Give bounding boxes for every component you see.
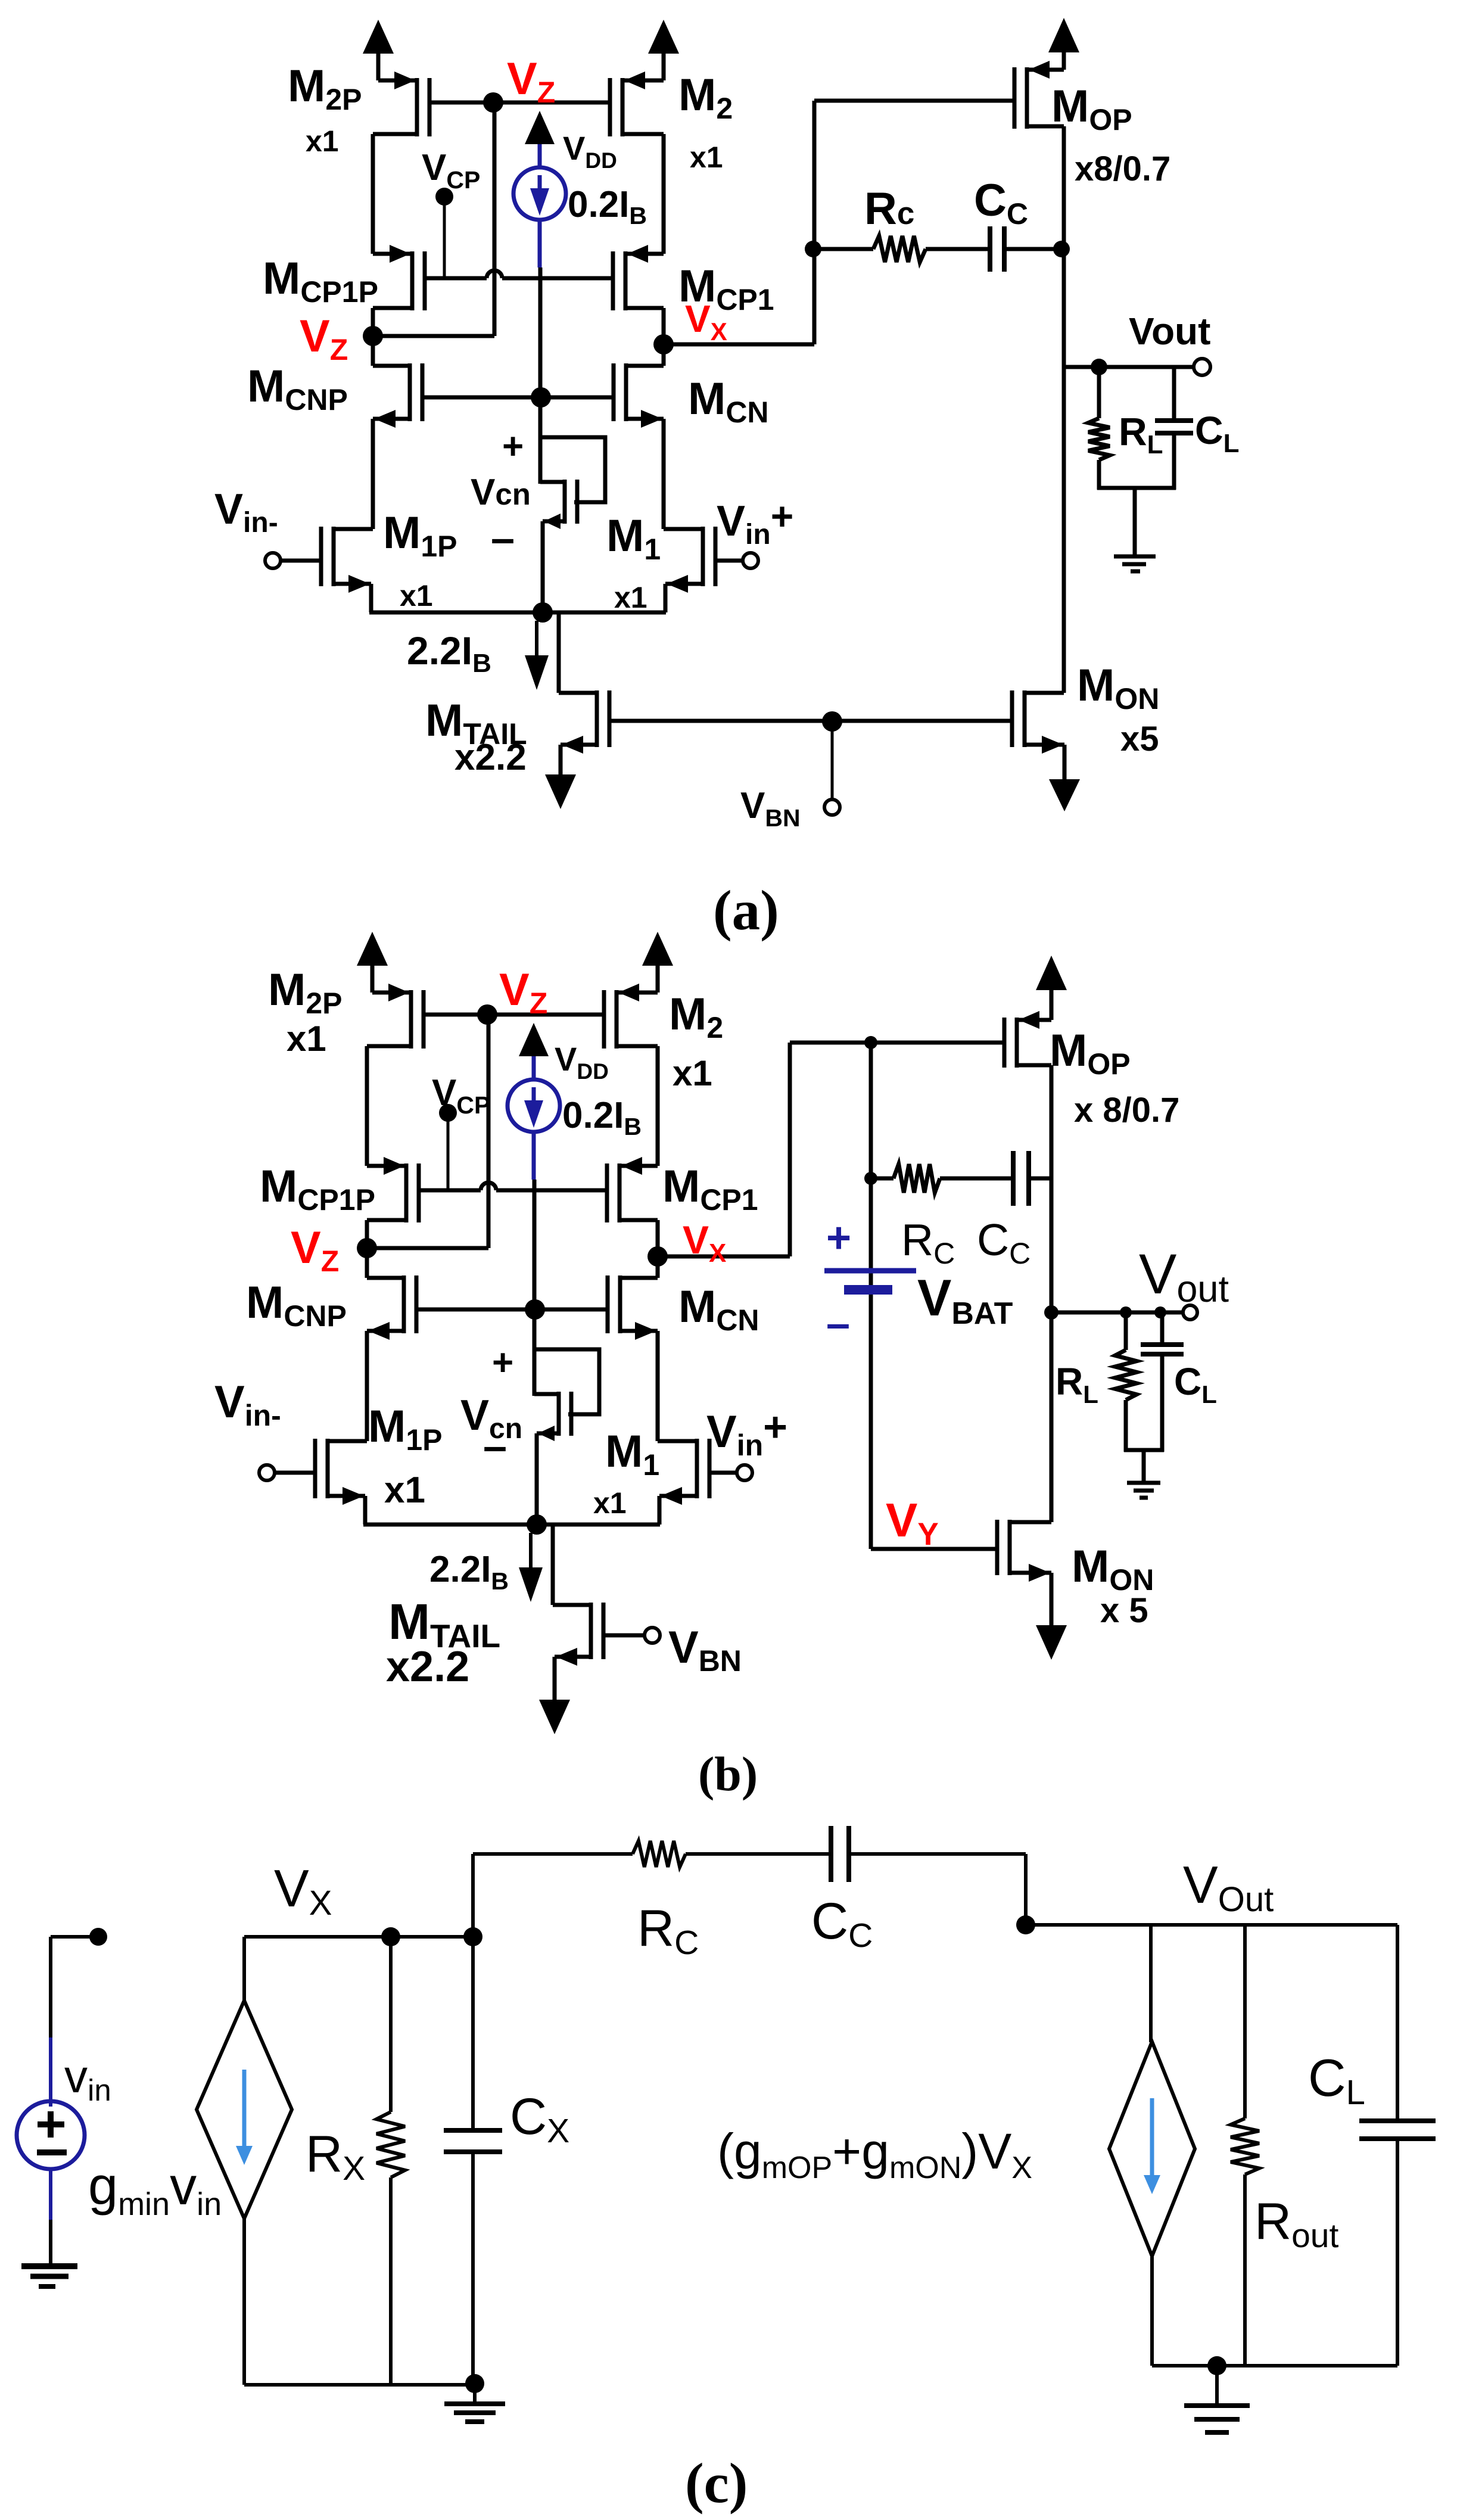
fig (a) wire Cc to MOP drain <box>1004 247 1064 251</box>
fig (b) wire right column M2 drain to MCP1 source <box>656 1046 660 1166</box>
fig (c) wire output bottom rail <box>1152 2364 1397 2367</box>
fig (c) ground symbol below output <box>1215 2366 1219 2404</box>
fig (b) wire center column to diode drain <box>533 1180 537 1396</box>
fig (c) wire Vout rail <box>1026 1923 1397 1927</box>
fig (b) wire left column MCP1P drain to MCNP drain <box>365 1220 369 1278</box>
fig (b) wire left column M2P drain to MCP1P source <box>365 1046 369 1166</box>
svg-text:x1: x1 <box>690 141 723 174</box>
fig (a) node VCP terminal dot <box>435 188 453 206</box>
svg-text:+: + <box>502 426 524 467</box>
svg-text:–: – <box>491 515 515 562</box>
fig (c) wire RX top <box>389 1937 393 2112</box>
fig (b) wire right column MCN source to M1 drain <box>656 1331 660 1441</box>
fig (b) wire M1P source corner <box>363 1496 368 1525</box>
fig (a) gate rail MCNP-MCN <box>422 396 614 400</box>
fig (c) label vin plus symbol <box>38 2121 64 2127</box>
fig (a) wire Vout to CL <box>1172 367 1176 421</box>
fig (a) wire M1P gate to Vin- port <box>280 559 321 563</box>
fig (b) node tail junction dot <box>527 1514 547 1535</box>
fig (c) voltage source vin <box>17 2101 85 2169</box>
fig (c) wire CX bottom <box>471 2152 475 2385</box>
transistor M2P (a) <box>415 78 419 136</box>
fig (c) wire Rc to Cc <box>686 1852 831 1856</box>
fig (b) node Vz junction dot <box>477 1004 497 1025</box>
transistor MCN-diode Vcn device (b) <box>557 1392 561 1436</box>
fig (a) gate rail MTAIL-MON (VBN net) <box>609 719 1012 723</box>
fig (b) node Vx junction dot <box>647 1246 668 1267</box>
fig (b) wire ground stub <box>1142 1450 1146 1482</box>
svg-text:x8/0.7: x8/0.7 <box>1075 150 1170 188</box>
fig (a) wire diode gate loop <box>540 437 605 502</box>
fig (b) wire to resistor Rc <box>871 1177 893 1181</box>
fig (a) current source 0.2IB <box>538 142 542 168</box>
svg-text:x 5: x 5 <box>1100 1591 1148 1630</box>
fig (c) dependent source (gmOP+gmON)VX diamond <box>1109 2042 1195 2256</box>
fig (b) wire MTAIL source to VSS <box>553 1657 557 1700</box>
fig (c) wire CL right column <box>1396 1925 1399 2121</box>
fig (a) wire left column MCP1P drain to MCNP drain <box>371 308 375 366</box>
fig (a) node Vx junction dot <box>653 334 674 354</box>
fig (c) wire vin source bottom <box>49 2169 52 2220</box>
fig (b) wire Vz horizontal to left column <box>367 1246 488 1250</box>
fig (b) wire RL to bottom rail <box>1124 1400 1128 1452</box>
fig (a) wire VBN stub <box>831 721 834 799</box>
fig (b) resistor RL <box>1115 1350 1137 1400</box>
fig (b) supply arrow VDD above current source <box>519 1023 549 1056</box>
svg-text:x1: x1 <box>384 1470 425 1511</box>
fig (a) supply down arrow below MTAIL <box>545 774 576 809</box>
svg-text:+: + <box>826 1214 851 1262</box>
fig (a) node Vz lower junction dot <box>363 326 383 346</box>
fig (b) wire Rc to Cc <box>940 1177 1013 1181</box>
fig (c) resistor RC <box>633 1841 686 1867</box>
fig (b) wire CL to bottom rail <box>1160 1354 1165 1452</box>
fig (b) wire MTAIL gate to VBN port <box>603 1634 645 1638</box>
transistor MCNP (b) <box>402 1275 406 1333</box>
fig (b) resistor Rc <box>893 1164 940 1193</box>
fig (b) supply arrow above MOP <box>1050 990 1054 1020</box>
svg-text:(a): (a) <box>713 879 779 942</box>
fig (b) wire Vz vertical drop <box>487 1015 491 1248</box>
fig (a) wire MON source to VSS <box>1063 745 1067 779</box>
fig (a) node Vout junction dot <box>1091 359 1107 375</box>
fig (a) ground symbol <box>1114 555 1156 559</box>
fig (b) port Vout <box>1183 1305 1197 1320</box>
transistor M1 (b) <box>695 1439 699 1498</box>
fig (c) capacitor CL <box>1359 2118 1436 2123</box>
fig (a) tail current 2.2IB annotation arrow <box>535 621 538 657</box>
fig (c) dependent source gmin*vin diamond <box>197 2001 292 2219</box>
fig (c) node bottom rail junction dot <box>465 2374 484 2393</box>
fig (a) wire Vx riser to MOP gate <box>812 101 817 344</box>
fig (b) wire tail node to MTAIL drain <box>551 1525 555 1605</box>
fig (b) wire battery column <box>869 1043 873 1549</box>
transistor MCP1 (b) <box>618 1163 622 1222</box>
fig (c) node Vx junction dot (CX) <box>463 1927 482 1946</box>
fig (a) wire MOP gate top rail <box>814 99 1014 103</box>
fig (a) gate rail MCP1P-MCP1 with hop over Vz wire <box>425 276 487 281</box>
transistor M2 (b) <box>615 990 619 1049</box>
fig (a) wire CL to bottom rail <box>1172 433 1176 490</box>
fig (c) resistor RX <box>376 2112 405 2177</box>
fig (b) ground symbol <box>1127 1481 1160 1485</box>
svg-text:x2.2: x2.2 <box>454 737 527 778</box>
fig (b) node CL junction dot <box>1154 1306 1166 1318</box>
svg-text:(c): (c) <box>685 2451 748 2515</box>
svg-text:x1: x1 <box>614 581 647 614</box>
transistor MCP1P (b) <box>404 1163 409 1222</box>
fig (a) wire tail node to MTAIL drain <box>557 612 561 693</box>
fig (b) wire Vx riser <box>788 1043 792 1256</box>
fig (b) node Rc junction dot <box>864 1172 877 1185</box>
fig (a) wire VCP stub <box>443 197 446 276</box>
fig (c) node Vout-left junction dot <box>1016 1915 1035 1934</box>
fig (a) wire node Vx to riser <box>664 343 814 347</box>
fig (a) capacitor CL <box>1155 418 1193 423</box>
fig (c) wire input stub <box>51 1935 98 1939</box>
fig (a) wire Vz vertical drop <box>493 102 497 336</box>
fig (c) node output ground junction dot <box>1207 2356 1226 2375</box>
fig (b) wire left column MCNP source to M1P drain <box>365 1331 369 1441</box>
transistor MCN (a) <box>624 363 628 421</box>
fig (b) node Vz lower junction dot <box>357 1238 377 1258</box>
fig (c) wire Rout top stub <box>1243 1925 1247 2118</box>
fig (a) resistor RL <box>1088 418 1110 460</box>
fig (a) port VBN <box>824 799 840 815</box>
fig (b) wire M1P gate to Vin- port <box>274 1471 315 1475</box>
fig (a) wire right column MCN source to M1 drain <box>662 419 666 529</box>
fig (b) wire M1 gate to Vin+ port <box>709 1471 737 1475</box>
transistor MCP1P (a) <box>410 251 415 310</box>
svg-text:x1: x1 <box>400 579 433 612</box>
fig (b) wire top rail to MOP gate <box>790 1041 1005 1045</box>
fig (b) node VCP terminal dot <box>439 1104 457 1122</box>
fig (a) wire Vout <box>1064 365 1194 369</box>
fig (a) wire Vout to RL <box>1097 367 1101 418</box>
fig (b) wire M1 source corner <box>658 1496 662 1525</box>
fig (b) wire source rail of M1P and M1 (tail) <box>363 1523 660 1527</box>
svg-text:Vcn: Vcn <box>471 472 531 513</box>
fig (b) capacitor CL <box>1141 1342 1184 1347</box>
fig (a) wire MTAIL source to VSS <box>559 745 563 774</box>
fig (c) wire Vx top rail <box>244 1935 473 1939</box>
fig (b) wire MOP drain column <box>1050 1065 1054 1522</box>
transistor MTAIL (b) <box>589 1603 593 1659</box>
svg-text:x1: x1 <box>287 1019 326 1059</box>
fig (c) resistor Rout <box>1231 2118 1259 2174</box>
fig (c) wire vin source top <box>49 1937 52 2037</box>
fig (c) wire RX bottom <box>389 2177 393 2385</box>
svg-text:x 8/0.7: x 8/0.7 <box>1074 1091 1179 1130</box>
fig (b) wire right column MCP1 drain to MCN drain (node Vx) <box>656 1220 660 1278</box>
fig (c) wire dependent source top stub <box>1149 1925 1153 2042</box>
fig (a) node Vz junction dot <box>483 92 503 113</box>
fig (a) node Vcn gate junction dot <box>531 387 551 407</box>
fig (c) wire CX top <box>471 1937 475 2130</box>
transistor MOP (a) <box>1025 67 1029 129</box>
fig (b) wire MON source to VSS <box>1050 1573 1054 1625</box>
fig (c) capacitor CX <box>444 2128 502 2133</box>
fig (c) label vin minus symbol <box>37 2149 67 2155</box>
fig (c) wire diamond bottom <box>242 2219 246 2385</box>
fig (a) node VBN junction dot <box>822 711 842 732</box>
fig (a) port Vin+ <box>743 553 758 568</box>
fig (c) dependent source arrow (output) <box>1150 2098 1154 2177</box>
fig (a) node tail junction dot <box>533 602 553 623</box>
fig (b) port Vin+ <box>737 1465 752 1480</box>
fig (c) node Vx junction dot (RX) <box>381 1927 400 1946</box>
fig (b) wire VCP stub <box>447 1113 450 1189</box>
fig (a) wire RL/CL bottom rail <box>1097 486 1176 490</box>
fig (a) wire M1P source corner <box>369 584 373 612</box>
fig (b) wire Cc to MOP drain column <box>1029 1177 1051 1181</box>
transistor MCNP (a) <box>408 363 412 421</box>
fig (c) wire Cc to Vout corner <box>849 1852 1026 1856</box>
fig (b) capacitor Cc <box>1011 1151 1016 1206</box>
fig (a) capacitor Cc <box>988 226 992 272</box>
fig (b) gate rail M2P-M2 at Vz <box>424 1013 604 1017</box>
fig (a) wire M1 gate to Vin+ port <box>715 559 743 563</box>
fig (b) supply arrow above M2P <box>371 966 375 993</box>
fig (c) wire bottom rail <box>244 2383 475 2387</box>
fig (c) capacitor CC <box>829 1826 833 1882</box>
fig (b) wire Vout <box>1051 1311 1182 1315</box>
fig (c) node input terminal dot <box>89 1928 107 1946</box>
svg-text:–: – <box>483 1423 507 1470</box>
fig (b) supply arrow above M2 <box>656 966 660 993</box>
fig (a) gate rail M2P-M2 at Vz <box>429 101 610 105</box>
fig (c) wire dependent source bottom stub <box>1150 2256 1154 2366</box>
fig (a) wire left column M2P drain to MCP1P source <box>371 134 375 254</box>
svg-text:x1: x1 <box>593 1486 627 1520</box>
fig (c) ground symbol below CX <box>473 2384 477 2403</box>
fig (b) wire Vout to CL <box>1160 1312 1165 1345</box>
fig (b) battery VBAT plates <box>824 1268 916 1274</box>
fig (a) wire diode source to tail node <box>541 521 545 612</box>
fig (a) resistor Rc <box>873 236 926 262</box>
fig (a) wire RL to bottom rail <box>1097 460 1101 490</box>
svg-text:x1: x1 <box>306 125 339 158</box>
fig (c) wire Rout bottom stub <box>1243 2174 1247 2366</box>
fig (a) wire center column to diode drain <box>538 267 543 484</box>
fig (a) supply arrow VDD above current source <box>525 111 555 144</box>
fig (b) current source 0.2IB <box>532 1054 536 1080</box>
fig (b) node battery-top junction dot <box>864 1036 877 1049</box>
transistor M1 (a) <box>701 527 705 586</box>
transistor MCN-diode Vcn device (a) <box>563 480 567 524</box>
fig (a) wire right column MCP1 drain to MCN drain (node Vx) <box>662 308 666 366</box>
fig (a) port Vout <box>1194 359 1210 375</box>
fig (a) wire right column M2 drain to MCP1 source <box>662 134 666 254</box>
transistor MOP (b) <box>1015 1018 1019 1068</box>
fig (b) gate rail MCNP-MCN <box>416 1308 608 1312</box>
fig (b) wire node Vx to riser <box>658 1255 790 1259</box>
svg-text:–: – <box>826 1300 850 1348</box>
fig (a) supply arrow above MOP <box>1062 52 1066 70</box>
fig (a) supply down arrow below MON <box>1049 779 1080 811</box>
fig (b) wire Vout to RL <box>1124 1312 1128 1350</box>
transistor M2P (b) <box>409 990 413 1049</box>
svg-text:(b): (b) <box>698 1747 758 1801</box>
fig (a) node Cc-right junction dot <box>1053 241 1070 257</box>
transistor MON (b) <box>1008 1520 1012 1575</box>
fig (b) node MOP-drain Vout junction dot <box>1044 1305 1058 1320</box>
fig (c) wire CX node up to Rc <box>471 1854 475 1937</box>
transistor MON (a) <box>1023 690 1027 747</box>
fig (a) wire MOP drain column to MON drain <box>1062 126 1066 693</box>
fig (c) dependent source arrow <box>242 2070 247 2148</box>
transistor MTAIL (a) <box>595 690 599 747</box>
fig (b) wire diode gate loop <box>534 1349 599 1414</box>
fig (a) supply arrow above M2 <box>662 54 666 80</box>
fig (b) node RL junction dot <box>1120 1306 1132 1318</box>
transistor M1P (a) <box>332 527 336 586</box>
fig (b) port Vin- <box>259 1465 275 1480</box>
fig (a) supply arrow above M2P <box>376 54 381 80</box>
fig (b) node Vcn gate junction dot <box>525 1299 545 1320</box>
fig (b) port VBN <box>645 1628 660 1643</box>
fig (b) supply down arrow below MTAIL <box>539 1700 570 1734</box>
svg-text:Vout: Vout <box>1129 310 1210 353</box>
fig (c) wire diamond top to Vx rail <box>242 1937 246 2001</box>
fig (b) wire diode source to tail node <box>535 1433 539 1525</box>
svg-text:+: + <box>492 1342 513 1383</box>
fig (b) gate rail MCP1P-MCP1 with hop over Vz wire <box>419 1189 481 1193</box>
fig (c) wire top compensation branch <box>473 1852 633 1856</box>
fig (a) wire ground stub <box>1133 488 1137 555</box>
fig (a) port Vin- <box>265 553 281 568</box>
fig (b) supply down arrow below MON <box>1036 1625 1067 1660</box>
fig (a) wire Vz horizontal to left column <box>373 334 494 338</box>
svg-text:x1: x1 <box>673 1053 712 1093</box>
fig (b) wire RL/CL bottom rail <box>1124 1448 1164 1452</box>
transistor MCP1 (a) <box>624 251 628 310</box>
fig (b) tail current 2.2IB annotation arrow <box>529 1533 533 1569</box>
transistor MCN (b) <box>618 1275 622 1333</box>
fig (b) wire battery bottom to Vy <box>871 1547 995 1551</box>
fig (c) ground symbol below vin <box>21 2263 77 2269</box>
svg-text:x2.2: x2.2 <box>386 1643 469 1691</box>
fig (a) wire M1 source corner <box>664 584 668 612</box>
transistor M2 (a) <box>621 78 625 136</box>
transistor M1P (b) <box>326 1439 330 1498</box>
fig (a) wire riser to resistor Rc <box>814 247 873 251</box>
fig (a) wire source rail of M1P and M1 (tail) <box>369 611 666 615</box>
fig (a) wire Rc to Cc <box>926 247 990 251</box>
fig (a) wire left column MCNP source to M1P drain <box>371 419 375 529</box>
fig (a) node Rc-left junction dot <box>805 241 821 257</box>
svg-text:x5: x5 <box>1120 720 1159 758</box>
